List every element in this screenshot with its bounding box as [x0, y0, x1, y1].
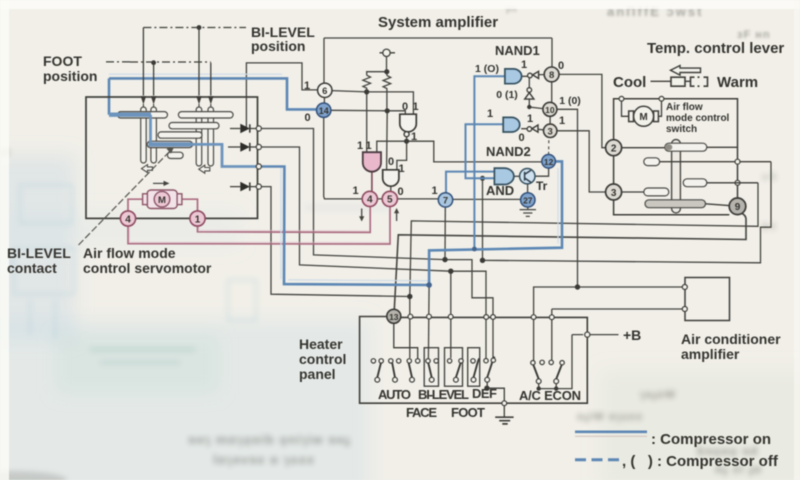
wire: NAND1 out bubble-triangle to circle 8	[522, 75, 545, 77]
air conditioner amplifier box	[685, 278, 730, 321]
wire: resistor2 bottom down to gateB left input	[386, 111, 389, 170]
wire: row B net long run to AND lower input riser	[483, 162, 772, 263]
track T1a (partly highlighted)	[118, 112, 168, 118]
pointer line from BI-LEVEL contact label	[79, 151, 171, 246]
wire: dashes between circle3 and circle12	[548, 140, 550, 155]
svg-text:0 (1): 0 (1)	[496, 89, 518, 101]
svg-text:ʜɟiW ɘɿuƨƨ: ʜɟiW ɘɿuƨƨ	[577, 411, 643, 423]
blue wire: AND upper input from circle 7	[446, 172, 494, 193]
svg-text:amplifier: amplifier	[681, 346, 740, 362]
svg-text:DEF: DEF	[472, 386, 497, 401]
contact row A capsule	[665, 143, 707, 151]
motor stems	[622, 101, 662, 116]
wire: gateB output to circle 5	[390, 185, 392, 191]
wire: circle12 stub to transistor	[535, 168, 549, 176]
wire: AND output to transistor	[514, 175, 520, 177]
track capsules	[118, 112, 234, 159]
logic state labels	[304, 59, 581, 198]
window rail W3	[468, 348, 480, 387]
wire: diode1 net long run to circle7 tap and DEF drop	[261, 129, 493, 358]
lead line from Cool	[651, 80, 671, 82]
guide arrows into box	[141, 96, 214, 105]
svg-text:1: 1	[365, 140, 371, 152]
upper fixed contacts	[371, 358, 564, 365]
dashed slider block	[691, 77, 708, 86]
junction dots heater	[484, 386, 558, 391]
svg-text:ɿɘɟɒW: ɿɘɟɒW	[640, 389, 676, 401]
window rail W1	[424, 348, 438, 387]
switch levers (mode selector)	[377, 357, 563, 379]
blue wire: FOOT feed down into servo tracks	[108, 78, 111, 114]
svg-text:contact: contact	[7, 260, 57, 276]
wire: circle14 to resistor2 bottom to gateA left input	[331, 110, 406, 114]
wire: BI-LEVEL guide link down to diode1 row and over to circle 6	[246, 63, 317, 128]
servomotor box outline	[86, 97, 258, 218]
svg-text:control: control	[299, 351, 346, 367]
arrow: down arrow left of circle4 drop	[361, 209, 363, 219]
solid slider block	[671, 77, 685, 86]
ground: below circle 27	[520, 207, 536, 216]
track T5	[168, 152, 184, 158]
svg-text:NAND2: NAND2	[486, 144, 531, 159]
svg-text:position: position	[251, 38, 305, 54]
blue junction dots	[426, 247, 476, 288]
resistor R2 zigzag	[383, 76, 391, 111]
terminal circle 14 (blue)	[317, 103, 331, 117]
svg-text:1: 1	[559, 115, 565, 127]
wire: +B bus down to A/C ECON lower bus	[539, 335, 572, 389]
terminal circle 4 (pink)	[362, 191, 377, 206]
track T3	[158, 132, 202, 138]
svg-text:Tr: Tr	[536, 179, 548, 193]
svg-text:0: 0	[397, 186, 403, 198]
wire: circle10 net right and down to A/C drop and AC-amp terminal	[534, 109, 684, 360]
bus from circle 13 to first contact drop	[394, 323, 418, 359]
wire: transistor emitter to circle 27	[527, 184, 529, 193]
wire: circle8 net to switch circle2	[559, 74, 605, 147]
wire: right edge down through 8,10,3	[550, 38, 552, 124]
wire: dot3 branch down into panel	[450, 271, 452, 358]
diode D2	[228, 143, 256, 151]
hollow arrows (pointing left)	[142, 165, 210, 174]
svg-text:4: 4	[125, 214, 131, 225]
arrow: up arrow right of circle5 drop	[396, 212, 398, 222]
wire: +B line	[572, 334, 619, 336]
blue wire: NAND1 input	[474, 76, 505, 249]
svg-text:NAND1: NAND1	[495, 43, 540, 58]
transistor Tr circle	[520, 169, 535, 184]
NAND2 output bubble and arrowhead	[527, 127, 532, 132]
track T2	[169, 123, 219, 129]
open circles on panel edges (wire crossings)	[408, 314, 590, 405]
svg-text:1: 1	[357, 140, 363, 152]
svg-text:1 (0): 1 (0)	[559, 95, 581, 107]
svg-text:27: 27	[523, 195, 533, 205]
legend: compressor on solid line	[575, 430, 647, 433]
svg-text:System amplifier: System amplifier	[378, 14, 498, 31]
wire: servo circle1 down, across, up to system circle4	[198, 206, 371, 232]
svg-text:5: 5	[387, 195, 393, 206]
lower moving contacts	[375, 377, 559, 383]
DEF common stub, bus to ground drop	[487, 382, 504, 417]
svg-text:AND: AND	[486, 183, 514, 198]
blue wire: servo exit to long highlight path up to circle 12	[258, 161, 562, 285]
svg-text:1 (O): 1 (O)	[475, 63, 499, 75]
WIRES-PINK	[128, 199, 390, 244]
terminal circle 10	[543, 102, 557, 116]
svg-text:1: 1	[521, 59, 527, 71]
terminal circle 8	[544, 67, 559, 82]
svg-text:, ( ) : Compressor off: , ( ) : Compressor off	[622, 453, 779, 470]
svg-text:AUTO: AUTO	[378, 387, 411, 402]
svg-text:BI-LEVEL: BI-LEVEL	[418, 387, 469, 402]
pink gate (NAND pointing down)	[363, 152, 381, 172]
svg-text:switch: switch	[666, 124, 697, 135]
resistor R1 zigzag	[363, 75, 371, 92]
NAND2 gate (blue, pointing right)	[503, 117, 520, 132]
svg-text:FOOT: FOOT	[43, 53, 82, 69]
diode D1	[230, 124, 256, 132]
svg-text:4: 4	[367, 195, 373, 206]
svg-text:Air flow: Air flow	[666, 102, 703, 113]
guide vertical: FOOT right	[210, 63, 212, 96]
HEATER-PANEL	[360, 317, 588, 404]
window rail W2	[445, 348, 463, 387]
power terminal symbol	[380, 49, 396, 56]
svg-text:3: 3	[548, 126, 553, 137]
inverter pointing up (between NAND1 and circle10 line)	[527, 88, 532, 93]
svg-text:2: 2	[611, 144, 617, 155]
guide vertical: FOOT left	[153, 63, 155, 96]
servo circle 1 (pink)	[190, 211, 205, 226]
wire: power symbol stem and branches to resistors	[367, 57, 387, 76]
svg-text:Heater: Heater	[299, 336, 343, 352]
svg-text:control servomotor: control servomotor	[83, 260, 212, 276]
servo circle 4 (pink)	[120, 211, 135, 226]
pink echo lines	[130, 227, 389, 242]
wire: gateA bubble to dot, branches to pink gate, gateB, c12 line	[377, 137, 543, 170]
svg-text:0: 0	[388, 156, 394, 168]
motor (airflow switch)	[629, 106, 659, 126]
svg-text:0: 0	[402, 101, 408, 113]
svg-text:Air conditioner: Air conditioner	[681, 331, 781, 347]
svg-text:1: 1	[195, 214, 201, 225]
contact row B capsule and wire	[644, 158, 660, 166]
TERMINAL-CIRCLES	[120, 67, 745, 323]
wire: inverter tap from NAND1 output down to circle10 line	[529, 76, 543, 108]
terminal circle 3 (system)	[544, 124, 557, 137]
wire: diode3 net to junction with LINE-A	[261, 187, 409, 297]
svg-text:1: 1	[398, 163, 404, 175]
svg-text:A/C ECON: A/C ECON	[519, 388, 581, 403]
svg-text:7: 7	[443, 196, 448, 207]
svg-text:M: M	[639, 112, 647, 123]
open circle crossing on row C wire	[735, 180, 740, 185]
row A wires	[622, 146, 738, 148]
NAND1 output bubble and arrowhead	[528, 73, 533, 78]
svg-text:panel: panel	[299, 366, 336, 382]
wire: heater panel feeds from blue dot down	[427, 285, 430, 359]
SWITCH-BOX	[614, 99, 738, 215]
wire: A/C ECON terminal2 line	[552, 309, 684, 361]
AC amp terminal circles	[682, 285, 687, 312]
dashed continuation inside box to wipers	[143, 104, 210, 160]
wire: diode2 net long run to DEF drop	[261, 147, 486, 358]
svg-text:position: position	[43, 68, 97, 84]
wire: circle6 to resistor1 bottom to gateA right input	[332, 91, 413, 115]
legend: compressor off dashed line	[575, 458, 619, 461]
contact row D capsule and wire from circle 3	[644, 188, 669, 196]
wire: servo circle1 up to motor right brush	[182, 199, 198, 211]
svg-text:14: 14	[319, 106, 329, 116]
wire: main horizontal row through 4,5,7,27	[324, 198, 520, 201]
WIRES-GRAY	[246, 38, 771, 389]
terminal circle 12 (blue)	[542, 155, 556, 169]
svg-text:1: 1	[431, 185, 437, 197]
svg-text:FACE: FACE	[406, 405, 437, 420]
ground bars under DEF	[495, 417, 513, 424]
terminal circle 13	[387, 309, 401, 323]
svg-text:0: 0	[518, 132, 524, 144]
svg-text:10: 10	[545, 105, 555, 115]
wire: system amplifier top line	[324, 37, 552, 39]
wire: NAND2 out to circle 3	[521, 129, 544, 130]
gate A (white NAND pointing down)	[400, 114, 417, 132]
wire: circle7 bottom to dot on diode1 line	[444, 207, 446, 260]
svg-text:mode control: mode control	[666, 113, 730, 124]
svg-text:M: M	[158, 195, 166, 206]
terminal circle 5 (pink)	[382, 191, 397, 206]
switch circle 2	[606, 140, 622, 156]
arrow above motor	[153, 182, 166, 184]
svg-text:: Compressor on: : Compressor on	[651, 431, 771, 448]
A/C ECON lower stubs	[539, 383, 557, 388]
pale echo of highlighted compressor-on path	[109, 74, 558, 281]
svg-text:0: 0	[558, 60, 564, 72]
guide vertical: BI-LEVEL left	[142, 28, 144, 96]
blue highlight inside tracks	[109, 115, 258, 167]
wire: left edge vertical through 6 and 14 down to main row	[323, 38, 326, 199]
svg-text:6: 6	[322, 86, 327, 97]
wire: pink gate output to circle 4	[371, 172, 373, 191]
svg-text:1: 1	[412, 101, 418, 113]
wire: circle3(sys) net to switch circle3	[557, 131, 606, 192]
airflow mode switch box outline	[614, 99, 738, 215]
svg-text:3: 3	[611, 188, 617, 199]
svg-text:12: 12	[544, 157, 554, 167]
track T1b	[178, 112, 233, 118]
blue wire: FOOT position feed to circle 14	[109, 78, 316, 109]
terminal circle 6	[318, 83, 332, 97]
ghost diagram structure bleeding from reverse side (left)	[0, 185, 256, 340]
svg-text:Cool: Cool	[613, 74, 646, 91]
svg-text:1: 1	[487, 108, 493, 120]
open circle crossing on row B wire	[735, 159, 740, 164]
wire: servo circle4 up to motor left brush	[128, 199, 143, 211]
AND gate (blue, pointing right)	[494, 168, 513, 184]
blue wire: NAND2 input down to AND lower input	[466, 124, 504, 178]
transistor internals	[525, 170, 531, 182]
terminal circle 7 (blue)	[438, 193, 452, 207]
svg-text:BI-LEVEL: BI-LEVEL	[7, 245, 71, 261]
svg-text:ɘʜɿ mɒɿǫɒib ǫniɿiw ɘʜɟ: ɘʜɿ mɒɿǫɒib ǫniɿiw ɘʜɟ	[188, 432, 351, 447]
page edge highlights	[0, 0, 800, 9]
selector shaft capsule	[672, 140, 681, 213]
svg-text:Air flow mode: Air flow mode	[83, 245, 176, 261]
NAND1 gate (blue, pointing right)	[505, 69, 522, 84]
contact row C capsule and wire	[683, 179, 707, 187]
svg-text:1: 1	[527, 113, 533, 125]
svg-text:Warm: Warm	[717, 74, 758, 91]
dash-dot guide: BI-LEVEL horizontal	[143, 27, 246, 29]
track T4 (highlighted)	[147, 141, 192, 147]
terminal circle 27 (blue)	[521, 193, 535, 207]
wire: circle9 down and long line B to circle 13	[394, 213, 746, 309]
dash-dot guide: FOOT horizontal	[106, 61, 211, 63]
gate A output bubble	[404, 132, 409, 137]
svg-text:1: 1	[304, 80, 310, 92]
svg-text:0: 0	[304, 112, 310, 124]
wire: LINE-A row C to panel AUTO area	[410, 183, 758, 358]
svg-text:Temp. control lever: Temp. control lever	[647, 40, 784, 57]
wiper capsules	[141, 107, 214, 166]
svg-text:1: 1	[411, 131, 417, 143]
Cool / Warm lever graphic	[651, 66, 708, 87]
switch circle 3	[606, 184, 622, 200]
diode D3	[230, 182, 256, 190]
wire: resistor1 bottom down to pink gate left input	[366, 92, 368, 152]
SERVO-BOX	[86, 28, 258, 219]
svg-text:13: 13	[389, 312, 399, 322]
hollow arrow pointing left	[671, 66, 701, 76]
svg-text:FOOT: FOOT	[451, 405, 485, 420]
svg-text:+B: +B	[623, 327, 641, 343]
svg-text:lɒɿɘvɘƨ ɒ ɿoƨƨ: lɒɿɘvɘƨ ɒ ɿoƨƨ	[213, 452, 315, 467]
motor M (servo)	[143, 190, 182, 209]
top edge terminal circles	[619, 96, 664, 101]
guide vertical: BI-LEVEL right	[198, 28, 200, 96]
box edge open circles for diode and blue exits	[256, 126, 261, 189]
gate B (white AND pointing down)	[383, 170, 399, 186]
switch circle 9	[729, 198, 746, 215]
heater control panel box	[360, 317, 588, 404]
svg-text:1: 1	[352, 185, 358, 197]
svg-text:ɜ-S: ɜ-S	[762, 172, 777, 183]
svg-text:9: 9	[735, 202, 741, 213]
contact row E capsule (active, gray) and wire to circle 9	[645, 200, 706, 208]
svg-text:8: 8	[549, 70, 554, 81]
wire: servo circle4 down, across, up to system circle5	[128, 206, 390, 244]
